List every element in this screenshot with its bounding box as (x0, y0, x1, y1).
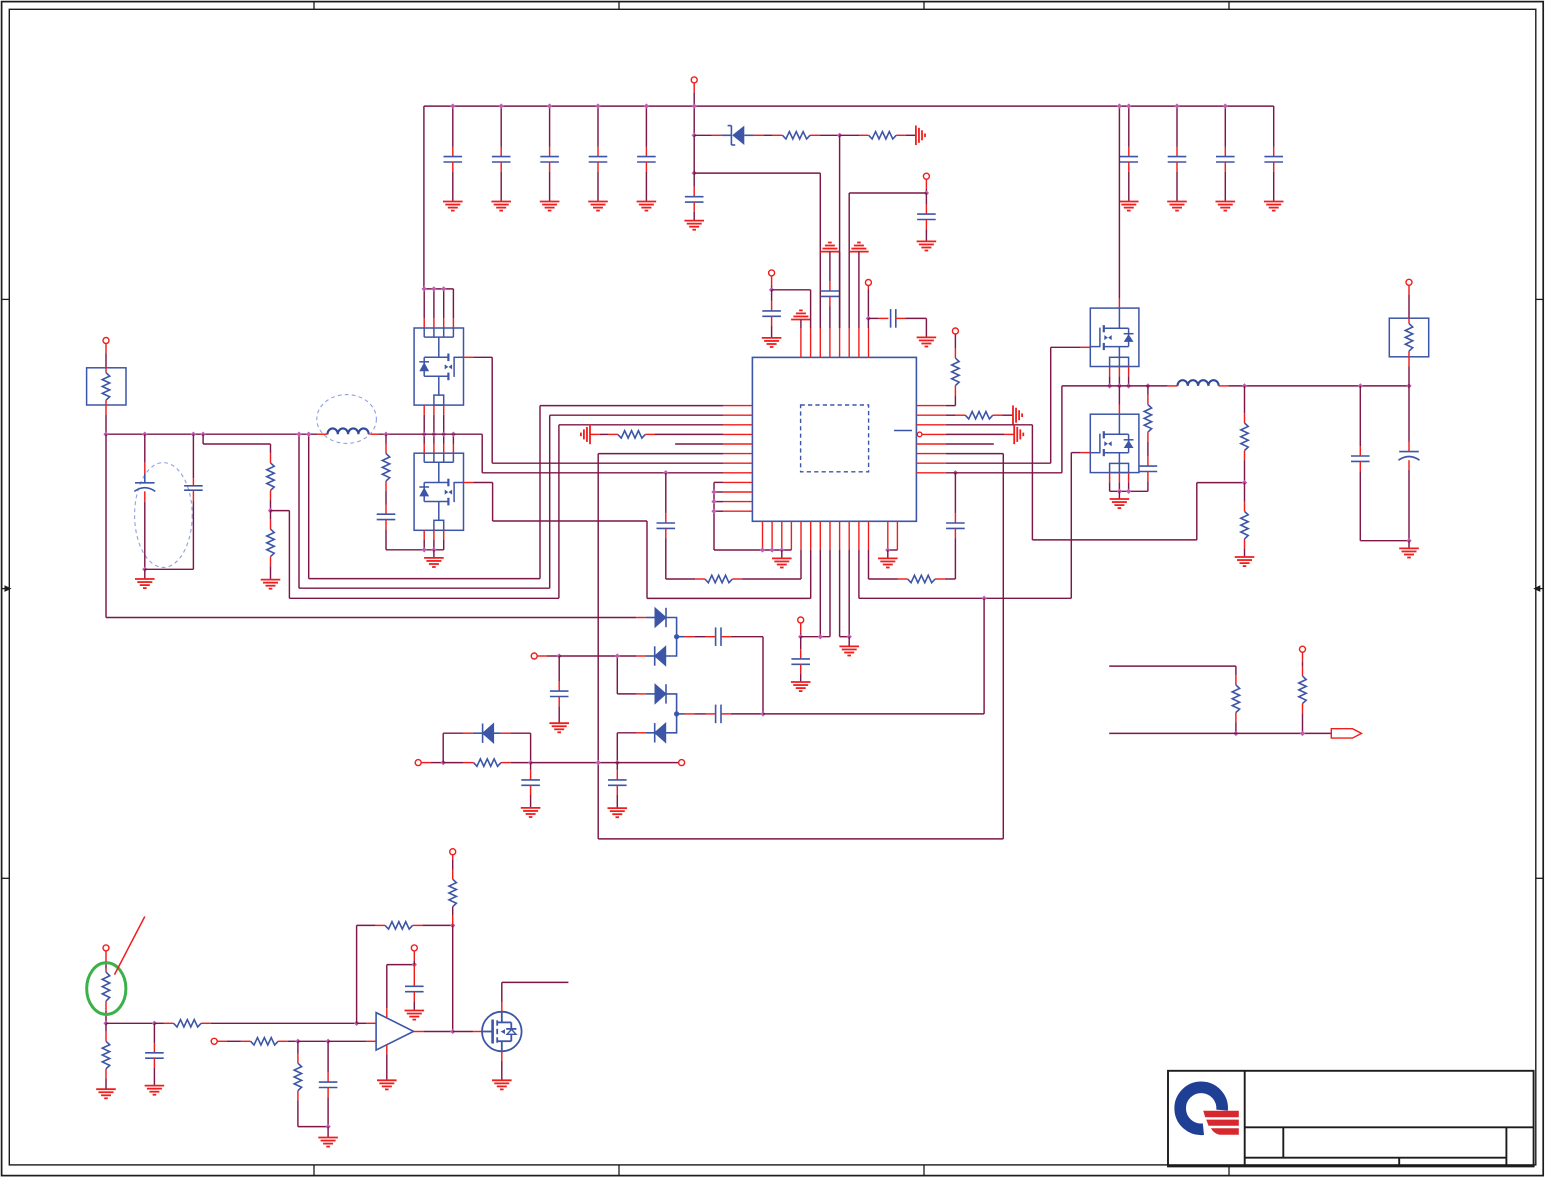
annotation dashed ellipse around C15 (135, 463, 193, 568)
junction VIN y173 (692, 170, 697, 175)
junction divider (200, 432, 205, 437)
diode D1 (636, 617, 646, 619)
junction C28 (152, 1021, 157, 1026)
capacitor C13 (771, 290, 773, 301)
wire DRVL1 gate Q2 (464, 482, 474, 484)
port P13 (103, 945, 109, 951)
zener diode D6 (722, 126, 754, 145)
capacitor C28 (153, 1023, 155, 1043)
junction P2 (924, 190, 929, 195)
wire Q5 drain (501, 1002, 503, 1012)
ground of C9 (1264, 202, 1284, 211)
port P2 (923, 173, 929, 179)
junction C25 (557, 653, 562, 658)
wire comp left to IC pin (800, 550, 802, 579)
wire IC pins down to charge pump (819, 550, 821, 637)
off-page connector (1331, 729, 1361, 738)
title block frame (1168, 1071, 1534, 1167)
ground PGND2 (1118, 491, 1120, 499)
capacitor C14 snubber (385, 505, 387, 515)
transistor Q1 (high-side FET block, left) (414, 328, 463, 405)
ground of C27 (608, 808, 628, 817)
resistor R3 (773, 134, 783, 136)
ground of C30 (405, 1011, 425, 1020)
junction C4 rail (595, 103, 600, 108)
resistor R8 comp left (666, 578, 695, 580)
wire VOSNS1 b (298, 434, 300, 588)
diode D3 (616, 656, 618, 694)
wire R1 to VOUT1 bus (105, 405, 107, 415)
capacitor C9 input bank (1273, 106, 1275, 147)
resistor R2 boxed (terminal right) (1389, 318, 1428, 357)
junction P3 (769, 287, 774, 292)
ground of C4 (588, 202, 608, 211)
capacitor C21 output electrolytic (1408, 386, 1410, 442)
junction rail-Q3 drop (1117, 103, 1122, 108)
wire P8 to D2 (559, 655, 617, 657)
resistor R23 (241, 1040, 251, 1042)
resistor R15 (443, 762, 464, 764)
transistor Q4 (low-side FET block, right) (1090, 414, 1139, 472)
ground sideways right b (1014, 425, 1023, 445)
wire grounded pin pair (840, 636, 850, 638)
border center arrow left (2, 588, 8, 590)
junction R18 (103, 1021, 108, 1026)
junction R16 (1233, 731, 1238, 736)
wire SW1 to IC LX1 pin (481, 434, 483, 473)
port P5 no-connect bubble (917, 432, 922, 437)
ground of C13 (762, 338, 782, 347)
junction D2-D3 (615, 653, 620, 658)
junction pump node (760, 711, 765, 716)
junction C7 rail (1174, 103, 1179, 108)
junction loop net (596, 760, 601, 765)
ground of Q5 (492, 1080, 512, 1089)
junctions SW2 bus (1107, 383, 1112, 388)
annotation dashed ellipse around L1 (317, 395, 377, 444)
resistor R7 (270, 511, 272, 520)
ground sideways right of R4 (916, 126, 925, 146)
junction SW2 snubber (1145, 383, 1150, 388)
junction C29 (325, 1039, 330, 1044)
ground of C10 (684, 221, 704, 230)
inductor L2 (1168, 385, 1178, 387)
wire SW2 to Q4 top pin (1118, 386, 1120, 405)
capacitor C19 snubber right (1147, 456, 1149, 466)
wire P3 to IC pin (772, 289, 811, 291)
IC U1 pin-1 interior mark (894, 430, 912, 432)
ground of C15 (144, 569, 146, 579)
junction C8 rail (1223, 103, 1228, 108)
IC U1 exposed pad (dashed) (801, 405, 869, 472)
wire LX2 to SW2 bus (946, 472, 1062, 474)
resistor R9 comp right (945, 578, 956, 580)
resistor R12 snubber right (1147, 386, 1149, 395)
port P16 (411, 945, 417, 951)
wires Q4 bottom pins to source row (1109, 473, 1111, 483)
capacitor C30 V+ decouple (413, 965, 415, 987)
junction feedback (450, 923, 455, 928)
ground sideways right a (1013, 405, 1022, 425)
ground of C31 (917, 337, 937, 346)
wire net stub upper (1109, 665, 1236, 667)
IC U1 body (752, 357, 916, 521)
wire 5V rail (531, 762, 682, 764)
wire net stub lower (1109, 732, 1331, 734)
junction FB1 tap (268, 508, 273, 513)
port P7 VOUT2 terminal (1406, 279, 1412, 285)
wires Q1 top pins to rail drop (423, 289, 425, 318)
resistor R22 pullup (452, 916, 454, 926)
annotation green ellipse (87, 963, 126, 1015)
port P8 (531, 653, 537, 659)
port P15 (450, 849, 456, 855)
wire comp right to IC pin (868, 550, 870, 579)
diode D5 (442, 733, 444, 762)
ground charge pump (839, 646, 859, 655)
junction C16 (191, 432, 196, 437)
junction VOUT2 divider (1242, 383, 1247, 388)
port P6 VOUT1 terminal (103, 338, 109, 344)
ground of C26 (521, 808, 541, 817)
wire VIN top rail (424, 105, 1274, 107)
junction VIN-zener row (692, 133, 697, 138)
capacitor C29 (327, 1041, 329, 1072)
inductor L1 (318, 433, 328, 435)
wire NC stub pin left (675, 443, 723, 445)
ground of C3 (540, 202, 560, 211)
ground PGND under IC right (887, 550, 889, 558)
capacitor C20 output (1359, 386, 1361, 446)
wire - input (298, 1040, 328, 1042)
annotation red pointer line (115, 917, 145, 975)
wire D3-D4 center tap (666, 694, 685, 733)
ground sideways left (581, 425, 590, 445)
wire VOUT1 to D1 anode (106, 617, 636, 619)
wire inter-pin loop net (946, 453, 1004, 455)
capacitor C15 electrolytic (144, 434, 146, 462)
junction pin pair b (847, 634, 852, 639)
resistor R5 snubber (385, 434, 387, 444)
wire D4 anode down (616, 733, 618, 763)
wire NC stub pin (946, 443, 994, 445)
diode D2 (617, 655, 636, 657)
capacitor C31 (868, 317, 878, 319)
ground of C7 (1167, 202, 1187, 211)
ground of C1 (443, 202, 463, 211)
junctions Q4 source row (1117, 489, 1122, 494)
resistor R20 (154, 1022, 164, 1024)
wire IC bottom right pins row (888, 549, 898, 551)
IC U1 right pin stubs (916, 406, 945, 473)
wire C23 to pump node (762, 637, 764, 714)
junctions bottom ground row (760, 547, 765, 552)
wire divider jog (202, 434, 204, 444)
junction C20 (1358, 383, 1363, 388)
capacitor C2 input bank (500, 106, 502, 147)
wire VOUT2 bus (1228, 385, 1409, 387)
border center arrow right (1537, 588, 1543, 590)
junction VOSNS1 a (306, 432, 311, 437)
ground of R14 (1235, 557, 1255, 566)
port P4 (952, 328, 958, 334)
capacitor C4 input bank (597, 106, 599, 147)
wire pin to sideways ground b (946, 433, 1005, 435)
resistor R16 (1235, 666, 1237, 675)
capacitor C10 VIN decouple (693, 135, 695, 173)
junction FB2 tap (1242, 480, 1247, 485)
junction C29 bottom (325, 1124, 330, 1129)
capacitor C22 under P11 (800, 637, 802, 650)
resistor R6 (270, 444, 272, 453)
port P10 (679, 760, 685, 766)
wire + input (357, 1022, 367, 1024)
capacitor C5 input bank (645, 106, 647, 147)
wire rail right drop to Q3 (1118, 106, 1120, 299)
junction C15 (142, 432, 147, 437)
junctions left bundle (711, 489, 716, 494)
IC U1 bottom pin stubs (763, 521, 898, 550)
wire VOUT1 bus left (106, 433, 318, 435)
wires Q1 sources / Q2 drains at SW1 bus (423, 405, 425, 415)
wire FB1 tap to IC FB1 pin (271, 510, 290, 512)
wire VIN to IC VIN pin (694, 172, 820, 174)
junction SW1 snubber (383, 432, 388, 437)
junction COMP2 cap (953, 470, 958, 475)
wire FB2 pin to divider (946, 424, 1033, 426)
junction output (450, 1029, 455, 1034)
resistor R14 (1244, 483, 1246, 502)
op-amp U2 (376, 1013, 414, 1051)
port P1 VIN (691, 77, 697, 83)
resistor R21 feedback (357, 924, 376, 926)
capacitor C3 input bank (549, 106, 551, 147)
junction R17 (1300, 731, 1305, 736)
wire DRVH1 gate Q1 (464, 356, 474, 358)
capacitor C23 flying (685, 636, 695, 638)
wire VOUT1 down to D1 row (105, 434, 107, 617)
junction VOSNS1 b (296, 432, 301, 437)
port P17 (865, 280, 871, 286)
capacitor C24 flying (685, 713, 695, 715)
capacitor C6 input bank (1128, 106, 1130, 147)
ground AGND under IC (781, 550, 783, 558)
wire U2 V+ supply (386, 965, 388, 1009)
resistor R24 (297, 1041, 299, 1053)
wire G2 legs to IC pins (848, 252, 850, 328)
resistor R25 to sideways ground left (655, 433, 723, 435)
wire U2 output (414, 1031, 424, 1033)
wire R18 to C28 (106, 1022, 154, 1024)
junction R3-R4 (837, 133, 842, 138)
ground of C29 (327, 1127, 329, 1138)
ground of C25 (549, 723, 569, 732)
wire R2 to VOUT2 bus (1408, 357, 1410, 367)
junction VOUT2 right (1406, 383, 1411, 388)
junction D4 anode (615, 760, 620, 765)
capacitor C11 (925, 193, 927, 204)
wire feedback to output (452, 925, 454, 1031)
capacitor C26 (530, 763, 532, 771)
wire pump node to DRVL2 net (763, 713, 984, 715)
ground flipped G2 above IC (849, 243, 869, 252)
wire SW1 bus right (378, 433, 482, 435)
wire C16 to C15 bottom (145, 568, 194, 570)
port P14 (211, 1038, 217, 1044)
resistor R19 (105, 1023, 107, 1031)
wire VOSNS1 a (308, 434, 310, 578)
port P3 (769, 270, 775, 276)
diode D4 (617, 732, 636, 734)
wire U2 V- to ground (386, 1045, 388, 1055)
junction D5 left (441, 760, 446, 765)
junction C15 bottom (142, 567, 147, 572)
transistor Q3 (high-side FET block, right) (1090, 308, 1139, 366)
wires Q3 bottom pins to SW2 bus (1109, 367, 1111, 377)
junctions Q2 source row (422, 547, 427, 552)
ground of C6 (1119, 202, 1139, 211)
port P9 (415, 760, 421, 766)
ground of C5 (637, 202, 657, 211)
wire C20 to ground node (1360, 540, 1409, 542)
junction C6 rail (1126, 103, 1131, 108)
IC U1 top pin stubs (801, 328, 869, 357)
junction charge pump feed (981, 596, 986, 601)
wire D1-D2 center tap (666, 618, 685, 657)
junctions SW1 bus (422, 432, 427, 437)
capacitor C8 input bank (1224, 106, 1226, 147)
capacitor C16 (192, 434, 194, 478)
junction C5 rail (644, 103, 649, 108)
ground output (1408, 541, 1410, 549)
ground of C11 (917, 241, 937, 250)
wire Q2 source row (386, 549, 444, 551)
wire Q5 source to ground (501, 1051, 503, 1061)
wire R24 to C29 bottom (298, 1126, 328, 1128)
junction R24 (295, 1039, 300, 1044)
ground of U2 (377, 1080, 397, 1089)
junction P11 (798, 634, 803, 639)
wire DRVL2 gate Q4 (1081, 452, 1091, 454)
junction C21 ground (1406, 538, 1411, 543)
wire SW2 bus (1062, 385, 1168, 387)
junction C1 rail (450, 103, 455, 108)
ground flipped above AVCC pin (791, 310, 811, 319)
junction COMP1 cap (663, 470, 668, 475)
ground of R7 (261, 580, 281, 589)
capacitor C7 input bank (1176, 106, 1178, 147)
junction VIN-rail (692, 103, 697, 108)
IC U1 left pin stubs (723, 406, 752, 512)
ground of C22 (791, 682, 811, 691)
junction V+ (412, 962, 417, 967)
resistor R17 (1302, 666, 1304, 676)
wire zener to R3 (754, 134, 764, 136)
wires Q2 bottom pins to source row (423, 530, 425, 540)
transistor Q2 (low-side FET block, left) (414, 453, 463, 530)
junction R15 right (528, 760, 533, 765)
junction VOUT1 left (103, 432, 108, 437)
wire R3-R4 node down to IC EN pin (839, 135, 841, 328)
wire P2 to AGND symbol (849, 192, 926, 194)
resistor R13 (1244, 386, 1246, 413)
wire Q4 source row (1110, 490, 1148, 492)
junction pin pair a (818, 634, 823, 639)
wire G1 right leg to IC pin (839, 252, 841, 328)
capacitor C17 comp left (665, 473, 667, 514)
wire IC left low pins bundle (714, 481, 723, 483)
resistor R4 (840, 134, 859, 136)
wire IC bottom ground row (714, 549, 791, 551)
wire feedback up (356, 925, 358, 1023)
junction opamp + input (354, 1021, 359, 1026)
wire zener row (694, 134, 712, 136)
junctions Q1 top row (422, 286, 427, 291)
capacitor C18 comp right (954, 473, 956, 514)
port P11 (798, 617, 804, 623)
port P12 (1300, 646, 1306, 652)
resistor R1 boxed (terminal) (87, 368, 126, 405)
capacitor C25 (558, 656, 560, 681)
junction P17 (866, 316, 871, 321)
wire P11 pin pair (801, 636, 830, 638)
resistor R11 to sideways ground (946, 414, 956, 416)
ground of C2 (491, 202, 511, 211)
transistor Q5 (discrete MOSFET) (482, 1012, 522, 1052)
junction C2 rail (499, 103, 504, 108)
wire DRVH2 gate Q3 (946, 462, 1051, 464)
capacitor C1 input bank (452, 106, 454, 147)
capacitor C27 (616, 763, 618, 771)
ground of C28 (145, 1086, 165, 1095)
resistor R10 to port P4 (946, 405, 956, 407)
resistor R18 (circled) (105, 969, 107, 973)
wire rail left drop to Q-block (423, 106, 425, 289)
ground PGND1 (433, 550, 435, 558)
ground of C8 (1216, 202, 1236, 211)
ground of R19 (96, 1089, 116, 1098)
junction right pins row (885, 547, 890, 552)
company logo (1180, 1087, 1239, 1134)
junction C3 rail (547, 103, 552, 108)
capacitor C12 between G1 and pin (829, 252, 831, 282)
ground flipped G1 above IC (820, 243, 840, 252)
